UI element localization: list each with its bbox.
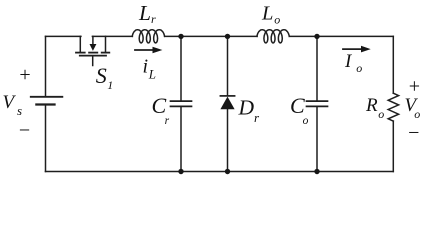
svg-text:V: V bbox=[3, 92, 17, 113]
svg-text:i: i bbox=[143, 56, 149, 78]
svg-text:R: R bbox=[365, 95, 378, 116]
svg-text:+: + bbox=[19, 64, 30, 86]
svg-text:−: − bbox=[408, 122, 419, 144]
svg-text:r: r bbox=[151, 12, 156, 26]
svg-text:r: r bbox=[165, 115, 170, 127]
svg-text:o: o bbox=[378, 107, 384, 121]
svg-text:+: + bbox=[409, 76, 420, 98]
svg-text:r: r bbox=[254, 110, 260, 125]
svg-text:L: L bbox=[148, 67, 156, 82]
svg-text:s: s bbox=[17, 103, 22, 118]
svg-text:−: − bbox=[19, 120, 30, 142]
svg-text:L: L bbox=[261, 3, 273, 25]
svg-text:D: D bbox=[238, 96, 255, 120]
svg-text:I: I bbox=[344, 51, 353, 72]
svg-text:o: o bbox=[414, 107, 420, 121]
svg-text:o: o bbox=[274, 13, 280, 27]
svg-text:1: 1 bbox=[107, 78, 113, 92]
svg-text:o: o bbox=[356, 61, 362, 75]
svg-text:o: o bbox=[303, 115, 309, 127]
svg-text:L: L bbox=[138, 1, 151, 25]
svg-text:S: S bbox=[96, 63, 107, 88]
